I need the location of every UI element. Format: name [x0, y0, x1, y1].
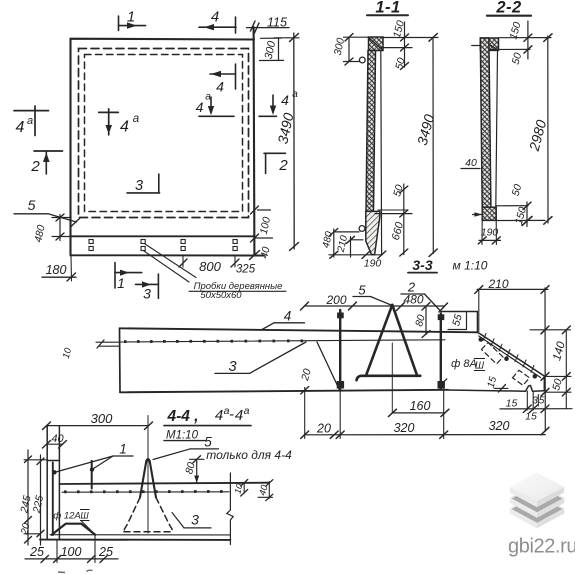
dim 50 tick	[401, 63, 409, 70]
rebar dots row (4-4)	[64, 490, 223, 493]
dim 480 ticks	[330, 229, 338, 236]
svg-text:a: a	[27, 115, 33, 127]
callout 5 (3-3): leader	[371, 297, 392, 306]
svg-text:ф 8А: ф 8А	[451, 358, 477, 370]
dim 20 tick on bottom line	[301, 387, 309, 395]
plan: wooden plug pair B	[141, 240, 145, 251]
right secondary line (3-3)	[565, 330, 567, 409]
slab top line (4-4)	[59, 483, 269, 484]
svg-text:300: 300	[91, 411, 113, 426]
dim 80 (4-4): arrowhead bottom	[194, 476, 199, 484]
svg-text:5: 5	[539, 396, 545, 407]
ramp rebar dot 2	[505, 357, 509, 361]
rib inner rebar	[52, 463, 54, 536]
svg-text:2: 2	[278, 157, 288, 174]
dim 20 left vertical stub	[304, 373, 306, 387]
dim 150/50: vertical line	[404, 22, 406, 67]
notch extension lines	[526, 391, 528, 410]
svg-text:115: 115	[267, 16, 287, 30]
top dim stub y37.6	[499, 37, 552, 39]
dim 210: line	[350, 237, 352, 258]
dim 245 stub top	[24, 459, 47, 461]
mark 4 top: tick	[235, 17, 237, 33]
main dim line 2980	[547, 36, 549, 223]
dim 115: line	[247, 27, 290, 29]
svg-text:-: -	[229, 406, 234, 423]
mark 3 inside: tick	[158, 174, 160, 193]
mark 4 top: line	[199, 26, 236, 28]
ticks 50/150 bottom (2-2)	[523, 202, 531, 209]
stirrup right top square	[438, 315, 444, 320]
svg-text:3: 3	[143, 286, 151, 302]
dim 150 ticks	[401, 34, 409, 41]
ticks on right secondary line	[562, 326, 570, 334]
svg-text:320: 320	[394, 421, 415, 435]
dim 210: line	[477, 288, 548, 290]
svg-text:4: 4	[211, 9, 219, 26]
mark 4a inside mid right: line	[199, 115, 234, 117]
logo slab top: right face	[537, 487, 564, 507]
svg-text:15: 15	[525, 411, 537, 423]
callout 3 (3-3): underline	[215, 372, 250, 374]
callout 4 (3-3): leader	[262, 323, 274, 330]
slab rebar line (4-4)	[62, 491, 229, 493]
ramp rebar dot 1	[479, 338, 483, 342]
dim 100 right: top tick line	[258, 209, 271, 211]
callout 1: leader a	[54, 456, 113, 473]
main dim 3490 ticks	[429, 34, 437, 42]
callout 3 (3-3): leader	[250, 342, 307, 373]
svg-text:210: 210	[487, 277, 508, 291]
right stub y392.2	[545, 391, 571, 393]
dim 300: bottom stub	[344, 61, 360, 63]
slab bottom line (4-4)	[40, 539, 230, 541]
section 2-2 main bar	[480, 38, 491, 207]
mark 4a right: arrowhead	[270, 106, 276, 116]
dim 225 ticks	[37, 458, 44, 465]
dim 40 ticks (4-4)	[266, 480, 273, 487]
callout 1: leader b	[92, 456, 113, 470]
dim 480 plan left: top stub	[52, 217, 71, 219]
dim 245: line	[27, 450, 29, 545]
block 55: inner vertical	[466, 312, 468, 330]
extension left 20	[304, 387, 306, 438]
svg-text:190: 190	[481, 227, 499, 239]
svg-text:3-3: 3-3	[412, 257, 432, 273]
mark 4a inside mid right: vertical tick	[210, 97, 212, 113]
callout 2 (3-3): underline	[401, 293, 425, 295]
section 1-1 main bar	[366, 51, 376, 212]
mark 4a inside: tick	[108, 109, 110, 135]
dim 660 bottom tick	[400, 249, 408, 256]
mark 1 top: line	[119, 25, 146, 27]
svg-text:только для 4-4: только для 4-4	[206, 448, 292, 462]
plan: plug leader line 1	[145, 244, 196, 278]
title M110 underline	[164, 440, 205, 442]
rib top line	[47, 460, 59, 462]
label 40 underline	[461, 168, 480, 170]
svg-text:3: 3	[135, 178, 143, 194]
lifting loop left side	[366, 305, 392, 376]
ticks 25/100/25	[41, 555, 49, 562]
dim 40 right: tick	[251, 234, 259, 242]
svg-text:1: 1	[127, 9, 135, 26]
svg-text:325: 325	[236, 264, 256, 276]
dim 300: line	[348, 37, 350, 61]
plan: outer square of panel	[71, 39, 255, 256]
dim 300 (4-4): line	[47, 425, 149, 427]
plan: wooden plug pair C	[181, 240, 185, 251]
dim 210: top stub	[351, 239, 364, 241]
svg-text:4: 4	[16, 119, 25, 136]
bottom tick of 3490	[290, 243, 299, 251]
logo slab bottom: right face	[537, 508, 564, 528]
svg-text:800: 800	[199, 259, 221, 274]
section 2-2 bottom block	[482, 207, 496, 220]
rebar dots left row	[124, 340, 303, 344]
svg-text:1: 1	[117, 275, 125, 291]
ticks on right main line	[541, 326, 549, 334]
dim 180: line	[42, 276, 76, 278]
dim 300 right: bottom tick line	[260, 59, 284, 61]
mark 2 left: arrowhead	[43, 153, 50, 163]
svg-text:320: 320	[489, 419, 510, 433]
svg-text:gbi22.ru: gbi22.ru	[508, 536, 575, 558]
mark 4 inside top right: line	[210, 73, 236, 75]
dim 10 right (4-4): line	[243, 483, 245, 493]
svg-text:М1:10: М1:10	[166, 430, 199, 442]
loop centerline (4-4)	[147, 416, 149, 534]
plan: outer dashed contour	[79, 49, 249, 218]
dashed anchor upper	[482, 343, 504, 365]
svg-text:3: 3	[228, 359, 236, 375]
dim 300 right: side line	[278, 38, 280, 60]
svg-text:160: 160	[410, 399, 431, 413]
vertical end bar	[91, 461, 93, 489]
top dim stub y49.4	[489, 48, 530, 50]
ramp bottom with notch	[448, 386, 544, 392]
svg-text:3: 3	[191, 512, 199, 528]
ramp top edge upper	[478, 333, 544, 376]
stirrup right bottom square	[438, 382, 444, 389]
section 1-1 top dim line	[383, 37, 438, 39]
logo slab middle: dark inset	[510, 485, 564, 514]
dim 10 ticks	[241, 480, 248, 487]
bottom dim stub y220.4	[496, 219, 545, 221]
stirrup left bottom square	[337, 382, 343, 389]
section 2-2 top block diagonal	[481, 39, 498, 50]
mark 1 bottom: arrow	[120, 270, 129, 276]
loop apex arc	[146, 459, 149, 461]
section 1-1 top hook circle	[359, 57, 365, 63]
title 4-4 underline	[164, 425, 251, 427]
dim stub y533.5	[24, 533, 41, 535]
plan: wooden plug pair A	[89, 240, 93, 251]
bottom dim line 320/320	[304, 434, 545, 436]
dim 480 plan left: ticks	[56, 214, 64, 221]
svg-text:4: 4	[235, 407, 243, 424]
dim 15 upper: stub	[494, 387, 508, 389]
svg-text:5: 5	[358, 283, 366, 298]
dim 180: tick	[67, 273, 76, 281]
secondary dim line top (2-2)	[527, 21, 529, 59]
panel bottom line	[120, 390, 448, 393]
svg-text:25: 25	[98, 545, 113, 559]
bottom common line of section 1-1	[329, 254, 382, 256]
mark 3 inside: line	[127, 192, 160, 194]
section 2-2 panel face line	[496, 50, 498, 207]
mark 4a left: line	[14, 110, 49, 112]
dim line 15/3/5	[500, 408, 572, 410]
ticks 200/480	[301, 302, 309, 310]
svg-text:4: 4	[196, 99, 204, 115]
dim 190 (2-2): line	[479, 239, 501, 241]
section 1-1 top block	[369, 37, 384, 51]
top dim connector line to section edge	[274, 37, 299, 39]
section 1-1 bottom foot	[366, 211, 380, 254]
dim 800/325: baseline	[160, 263, 254, 265]
rib right line	[58, 426, 60, 540]
secondary dim line bottom (2-2)	[526, 202, 528, 227]
dim 800: extension under plugs	[182, 256, 184, 268]
break line (4-4)	[227, 473, 233, 545]
logo slab bottom: top rim	[510, 493, 564, 522]
dim 480 plan left: dim line	[59, 215, 61, 241]
plug note underline	[189, 290, 286, 292]
dim stub at 47.5	[381, 47, 412, 49]
loop dashed left	[124, 498, 140, 532]
dim 480: line	[333, 229, 335, 257]
ramp right vertical	[543, 376, 545, 391]
svg-text:100: 100	[61, 545, 82, 559]
callout 2 (3-3): leader	[425, 294, 442, 312]
dim 115: tick b	[255, 23, 260, 33]
mark 4 inside top right: tick	[235, 64, 237, 89]
section 1-1 bottom hook circle	[359, 226, 365, 232]
svg-text:4: 4	[120, 119, 129, 136]
dim 800 tick left	[179, 259, 187, 267]
plan: bottom strip top line	[71, 235, 255, 237]
logo slab bottom: left face	[510, 508, 537, 528]
loop dashed right	[156, 498, 173, 532]
dim 80 (4-4): line	[196, 459, 198, 482]
slab inner bottom line	[50, 534, 230, 536]
dim 100 right: bottom tick line	[255, 237, 273, 239]
extension between 3 and 5 labels	[537, 395, 539, 407]
svg-text:Ш: Ш	[475, 361, 485, 372]
dim 80 (4-4): top tick	[193, 456, 201, 463]
dim 480 plan left: bottom stub	[52, 236, 71, 238]
main dim 2980 ticks	[544, 34, 552, 42]
callout 5: end tick	[71, 218, 80, 227]
svg-text:2-2: 2-2	[495, 0, 521, 17]
dim 210 ticks	[475, 286, 483, 294]
dim 40 (4-4): line	[47, 443, 63, 445]
tick at 320 extension bottom	[440, 379, 447, 386]
svg-text:a: a	[205, 92, 211, 103]
plan: plug leader line 2	[144, 251, 189, 282]
block 55: outline	[441, 312, 477, 332]
ramp rebar dot 3	[533, 375, 537, 379]
loop dashed base	[124, 531, 173, 533]
svg-text:4-4 ,: 4-4 ,	[166, 408, 198, 425]
mark 1 bottom: tick	[114, 263, 116, 289]
panel left edge	[119, 328, 122, 392]
svg-text:4: 4	[281, 92, 289, 108]
callout 5 (4-4): leader	[153, 449, 190, 460]
panel rebar line	[120, 340, 445, 342]
mark 1 top: tick	[118, 16, 120, 31]
callout 4 (3-3): underline	[274, 322, 305, 324]
lifting loop base	[357, 376, 421, 381]
bottom small mark dash	[58, 571, 65, 574]
logo slab middle: top rim	[510, 483, 564, 512]
dim 190 (2-2): ticks	[478, 237, 486, 244]
section 1-1 top block diagonal	[369, 38, 383, 50]
stirrup bar right	[440, 314, 442, 389]
svg-text:2: 2	[30, 158, 40, 175]
ticks on 15/3/5 line	[523, 405, 531, 413]
mark 3 bottom: arrow	[142, 281, 151, 287]
dim 25/100/25: line	[25, 558, 118, 560]
stirrup left top square	[338, 313, 344, 318]
plan: wooden plug pair D	[233, 240, 237, 251]
svg-text:a: a	[133, 113, 139, 125]
mark 2 right: tick	[265, 153, 267, 173]
dim 80: line	[425, 306, 427, 335]
bottom dim stub y205.7	[496, 205, 528, 207]
dim 40 right (4-4): line	[268, 482, 270, 499]
dim 180: left edge extension	[70, 256, 73, 282]
svg-text:480: 480	[403, 293, 423, 307]
ramp top edge lower	[479, 336, 541, 378]
callout 5 (3-3): underline	[353, 296, 371, 298]
svg-text:20: 20	[316, 422, 331, 436]
bottom right dim stub y210	[378, 209, 408, 211]
panel inner diagonal	[317, 342, 340, 391]
dim 115: tick a	[251, 21, 256, 31]
dim 225: line	[40, 455, 42, 545]
logo slab middle: right face	[537, 498, 564, 518]
extension x95	[94, 535, 96, 563]
mark 2 left: tick with up arrow	[45, 152, 47, 174]
block 55: inner bottom	[448, 329, 467, 331]
svg-text:4: 4	[215, 407, 223, 424]
mark 4 inside top right: arrowhead	[211, 71, 221, 77]
dim 100 right: tick	[251, 206, 259, 214]
mark 4 top: arrow	[204, 24, 214, 30]
extension x57	[56, 540, 58, 563]
dim 190 (2-2): extensions	[481, 220, 483, 244]
dim 80 (4-4): top stub	[190, 458, 205, 460]
section 2-2 left stub top	[472, 45, 481, 47]
dim 50 bottom ticks	[400, 186, 408, 193]
mark 2 left: line	[34, 150, 63, 152]
logo slab middle: left face	[510, 498, 537, 518]
stirrup bar left	[339, 310, 341, 389]
dim 160 ticks	[388, 409, 396, 416]
mark 2 right: line	[264, 152, 286, 154]
dim 40 (4-4) stub	[258, 496, 273, 498]
left stub a	[96, 341, 120, 343]
sh bars 12A	[80, 510, 90, 521]
mark 4a inside mid right: arrowhead	[208, 106, 214, 115]
right stub y329.8	[530, 329, 571, 331]
dim 50/660 vertical line	[403, 184, 405, 255]
mark 4a inside: line	[99, 111, 119, 113]
svg-text:40: 40	[465, 157, 477, 169]
dim 40 right: bottom slant tick	[250, 251, 260, 260]
loop centerline	[391, 343, 393, 413]
lifting loop right side	[392, 305, 417, 376]
mark 4a right: line	[259, 115, 277, 117]
svg-text:190: 190	[364, 258, 382, 270]
ticks bottom dim line	[301, 431, 309, 438]
right main dim line (3-3)	[544, 288, 546, 431]
dim 480: top stub to hook	[334, 231, 359, 233]
svg-text:180: 180	[46, 263, 67, 277]
dim 300: ticks	[345, 34, 353, 42]
svg-text:Ш: Ш	[80, 511, 89, 521]
callout 3 (4-4): leader	[172, 513, 184, 528]
svg-text:4: 4	[216, 79, 224, 95]
section 1-1 title underline	[367, 14, 408, 16]
plan right main dim line 3490	[293, 33, 295, 249]
svg-text:200: 200	[325, 293, 346, 307]
logo slab bottom: dark inset	[510, 495, 564, 524]
callout 3 (4-4): underline	[184, 527, 211, 529]
svg-text:5: 5	[28, 197, 36, 213]
dim 245 ticks	[25, 456, 32, 463]
dim 300 ticks	[43, 422, 51, 430]
bottom right dim stub y213.5	[375, 213, 412, 215]
ramp hatch ticks	[483, 334, 534, 373]
section 1-1 panel face line	[380, 51, 383, 255]
callout 1: underline	[113, 455, 133, 457]
dim 40 ticks	[43, 441, 51, 449]
callout 1: end dots	[53, 471, 56, 474]
logo slab top: top face	[510, 472, 564, 501]
dim 190 ticks	[362, 251, 370, 259]
main dim line 3490 of section 1-1	[432, 37, 434, 253]
mark 3 bottom: line	[136, 283, 159, 285]
dashed anchor lower	[513, 370, 530, 385]
left stub b	[99, 345, 120, 347]
mark 4a inside: arrowhead	[106, 125, 113, 134]
extension left 320	[339, 389, 341, 439]
dim 210 tick	[347, 236, 355, 243]
dim line 200/480	[305, 305, 445, 307]
dim 210: left extension	[478, 289, 480, 331]
svg-text:3: 3	[532, 396, 538, 407]
mark 4a right: tick with down arrow	[272, 95, 274, 112]
panel top line	[120, 328, 478, 332]
svg-text:ф 12А: ф 12А	[53, 511, 80, 522]
rib left line	[46, 426, 48, 540]
svg-text:м 1:10: м 1:10	[453, 259, 488, 273]
dim 800 tick right	[231, 259, 239, 267]
callout 5 (4-4): underline	[190, 448, 219, 450]
extension bar right to bottom dims	[443, 389, 445, 439]
mark 1 bottom: line	[115, 272, 142, 274]
anchor trapezoid	[52, 524, 95, 535]
svg-text:4: 4	[284, 309, 292, 324]
anchor label leader	[81, 521, 93, 533]
left tick 10	[97, 340, 104, 348]
section 2-2 title underline	[487, 15, 531, 17]
dim 20 (4-4) tick	[25, 517, 32, 524]
callout 5: leader	[48, 214, 77, 222]
